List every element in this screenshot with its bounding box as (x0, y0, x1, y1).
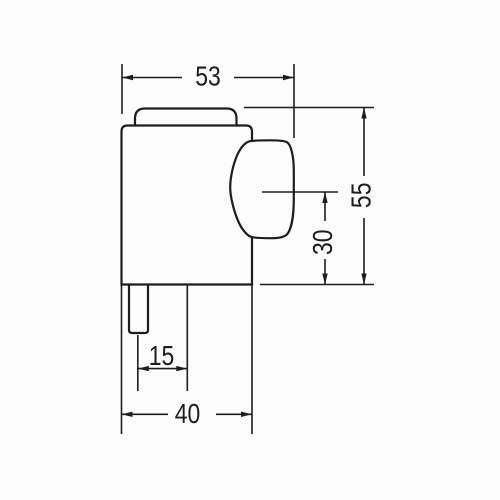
arrowhead 40 left (122, 412, 133, 417)
dim 55: dimension line lower segment (363, 218, 365, 285)
dim 53: dimension line left segment (122, 77, 182, 79)
dim 30: dimension line upper segment (324, 192, 326, 221)
arrowhead 15 left (138, 366, 149, 371)
svg-text:30: 30 (308, 229, 339, 255)
arrowhead 30 bottom (322, 274, 327, 285)
side knob (230, 140, 294, 238)
arrowhead 53 right (283, 75, 294, 80)
arrowhead 40 right (241, 412, 252, 417)
dim 40: dimension line left segment (122, 413, 169, 415)
arrowhead 15 right (176, 366, 187, 371)
arrowhead 55 top (361, 108, 366, 119)
dim 40: dimension line right segment (216, 413, 252, 415)
dim 15: left extension line (pin center) (137, 335, 139, 391)
svg-text:15: 15 (149, 341, 175, 372)
arrowhead 55 bottom (361, 274, 366, 285)
top cap (135, 109, 237, 126)
dim 53: right extension line (293, 64, 295, 138)
dim 53: left extension line (121, 64, 123, 114)
dim 53: dimension line right segment (234, 77, 294, 79)
bottom pin (129, 285, 148, 334)
dim 40: left extension line (121, 286, 123, 435)
arrowhead 30 top (322, 192, 327, 203)
dim 30: dimension line lower segment (324, 259, 326, 285)
dim 30: leader line from knob center (262, 191, 338, 193)
dim 15: right extension line (body center) (186, 286, 188, 392)
svg-text:55: 55 (347, 183, 378, 209)
dim 40: right extension line (251, 286, 253, 435)
body outline (122, 126, 253, 285)
dim 15: dimension line (138, 368, 188, 370)
dim 55/30: bottom extension line (260, 284, 374, 286)
arrowhead 53 left (122, 75, 133, 80)
svg-text:40: 40 (175, 399, 201, 430)
dim 55: dimension line upper segment (363, 108, 365, 177)
dim 55: top extension line (244, 107, 374, 109)
svg-text:53: 53 (195, 61, 221, 92)
